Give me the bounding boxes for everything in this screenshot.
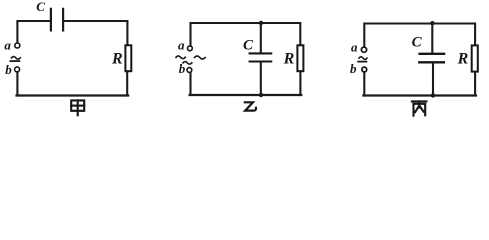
label 甲 xyxy=(71,100,84,115)
junction dot top xyxy=(259,21,263,25)
wire right lower (resistor to bottom rail) xyxy=(299,71,301,95)
wire top-right (capacitor to resistor top) xyxy=(64,21,127,46)
AC source underline xyxy=(10,60,19,62)
AC source tilde xyxy=(11,57,20,60)
wire left lower (b down to bottom rail) xyxy=(363,72,365,95)
wire right lower (resistor to bottom rail) xyxy=(474,72,476,96)
AC tilde right xyxy=(194,56,205,59)
capacitor C top plate xyxy=(420,53,445,55)
wire right lower (resistor to bottom rail) xyxy=(126,71,128,95)
svg-text:b: b xyxy=(350,61,357,76)
svg-text:b: b xyxy=(179,61,186,76)
AC source tilde xyxy=(359,57,367,60)
svg-text:C: C xyxy=(243,37,254,53)
terminal b xyxy=(15,67,20,72)
wire top-left (a up to top rail, right to junction) xyxy=(364,24,432,47)
svg-text:C: C xyxy=(36,0,45,14)
wire left lower (b down to bottom rail) xyxy=(189,73,191,95)
AC tilde left xyxy=(176,56,185,59)
wire top-right (junction to resistor top) xyxy=(261,23,300,46)
svg-text:R: R xyxy=(283,51,295,68)
terminal a xyxy=(15,43,20,48)
svg-text:C: C xyxy=(412,34,423,50)
wire bottom rail xyxy=(17,94,129,96)
AC tilde center lower xyxy=(183,62,192,65)
svg-text:b: b xyxy=(5,62,12,77)
AC source underline xyxy=(358,61,366,63)
svg-text:a: a xyxy=(178,38,185,53)
junction dot bottom xyxy=(431,93,435,97)
svg-text:R: R xyxy=(111,51,123,68)
wire bottom rail xyxy=(363,94,476,96)
junction dot top xyxy=(430,21,434,25)
resistor R3 box xyxy=(472,45,478,71)
label 丙 xyxy=(412,101,427,115)
capacitor C left plate xyxy=(50,9,52,31)
label 乙 xyxy=(245,102,256,110)
wire top-left (a up to top rail, right to capacitor) xyxy=(17,21,50,43)
svg-text:a: a xyxy=(4,38,11,53)
svg-text:a: a xyxy=(351,40,358,55)
terminal b xyxy=(362,67,367,72)
capacitor C bottom plate xyxy=(250,60,272,62)
capacitor C right plate xyxy=(62,9,64,31)
wire top-right (junction to resistor top) xyxy=(432,24,475,46)
junction dot bottom xyxy=(259,93,263,97)
resistor R2 box xyxy=(297,45,303,71)
wire top-left (a up to top rail, right to junction) xyxy=(191,23,262,46)
wire left lower (b down to bottom rail) xyxy=(16,72,18,95)
terminal a xyxy=(361,47,366,52)
terminal b xyxy=(187,68,192,73)
wire capacitor branch lower xyxy=(432,63,434,95)
resistor R1 box xyxy=(125,45,131,71)
wire capacitor branch upper xyxy=(431,24,433,54)
capacitor C top plate xyxy=(250,52,272,54)
wire capacitor branch lower xyxy=(260,63,262,96)
svg-text:R: R xyxy=(457,50,469,67)
wire bottom rail xyxy=(190,94,302,96)
terminal a xyxy=(188,46,193,51)
wire capacitor branch upper xyxy=(260,23,262,53)
capacitor C bottom plate xyxy=(419,61,444,63)
